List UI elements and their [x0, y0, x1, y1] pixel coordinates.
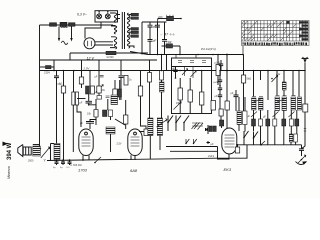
trimmer arrow over coils — [157, 119, 168, 128]
nested screen lines — [166, 147, 218, 159]
below-bus capacitor c — [68, 160, 72, 165]
tone pot — [298, 155, 306, 164]
rail B1 — [40, 59, 158, 61]
oscillator shelf — [172, 66, 212, 68]
wire x50 — [51, 144, 55, 161]
resistor pair R4 R5 — [89, 71, 91, 87]
svg-text:10k: 10k — [87, 113, 92, 116]
resistor R10 — [189, 78, 191, 90]
pot arrow R6 — [96, 85, 104, 93]
AC symbol — [61, 41, 67, 44]
wire right column — [298, 145, 302, 149]
IF can 2 coil a — [275, 97, 280, 111]
wire mains top — [40, 24, 114, 26]
svg-text:12 V: 12 V — [87, 56, 95, 60]
IF can 1 coil b — [259, 98, 264, 110]
wire v x74 — [73, 71, 75, 93]
capacitor chain x220 — [218, 71, 222, 86]
svg-text:0,1: 0,1 — [67, 167, 71, 169]
capacitor small — [106, 96, 110, 98]
svg-text:2x0,1: 2x0,1 — [207, 154, 215, 158]
svg-text:µF: µF — [210, 129, 213, 133]
osc coil pair — [148, 118, 153, 136]
IF coil former left — [72, 92, 75, 105]
resistor R6 — [98, 71, 100, 87]
trimmer pot right — [272, 75, 278, 82]
wire B0 drop — [69, 53, 71, 60]
resistor antenna line — [303, 104, 308, 112]
wire speaker top link — [33, 144, 40, 146]
capacitor near x99 — [100, 75, 104, 77]
table grid — [242, 21, 310, 46]
earth arrow — [296, 162, 307, 165]
svg-text:← 47 ∿∿: ← 47 ∿∿ — [160, 33, 175, 37]
svg-text:µF: µF — [263, 116, 266, 119]
svg-text:N. 308 402: N. 308 402 — [70, 164, 82, 167]
tube V3 envelope — [128, 129, 142, 156]
tube V2 pins — [83, 155, 89, 160]
wire rail link x99 — [98, 60, 100, 71]
tube V2 grids — [82, 137, 91, 146]
tap resistor 4V — [129, 14, 131, 16]
svg-text:µ100: µ100 — [215, 62, 221, 65]
capacitor C7 — [219, 60, 223, 71]
rail B2 — [148, 54, 243, 56]
table bottom row text — [243, 42, 308, 46]
resistor x140 — [140, 71, 142, 87]
transformer T1 primary — [114, 13, 116, 49]
svg-text:5µ: 5µ — [60, 167, 63, 169]
tube V3 pins — [131, 155, 135, 160]
capacitor C1 — [148, 22, 153, 38]
switch near tube V2 — [95, 157, 101, 163]
resistor R network top — [159, 18, 167, 20]
capacitor x124 — [124, 76, 128, 86]
wire coils down — [150, 136, 160, 159]
svg-text:µF: µF — [231, 92, 234, 95]
tube V2 envelope — [79, 129, 93, 156]
svg-text:µ+3: µ+3 — [214, 81, 219, 84]
coil dark — [106, 127, 115, 134]
tube V4 envelope — [222, 128, 237, 154]
svg-text:µF: µF — [95, 76, 98, 79]
resistor R14 — [243, 55, 245, 76]
bus extension — [218, 145, 248, 158]
resistor pair x161 — [161, 55, 163, 71]
resistor Y63 — [162, 45, 167, 47]
capacitor below EK3 bus — [237, 145, 239, 147]
output transformer coil — [33, 146, 41, 156]
svg-text:Pd 1/2(1½): Pd 1/2(1½) — [201, 47, 216, 51]
capacitor C4 — [162, 22, 167, 55]
oscillator unit frame — [172, 58, 212, 114]
wire rectifier cathode — [95, 44, 113, 46]
resistor row y110 — [94, 110, 98, 118]
wire rail link x54 — [53, 60, 55, 71]
wire plug pin 2 — [71, 27, 73, 39]
svg-text:2Ω: 2Ω — [102, 89, 105, 92]
svg-text:2000: 2000 — [28, 160, 34, 163]
margin arrow marker — [3, 142, 9, 147]
switch contact B — [254, 132, 259, 139]
wire lamp right — [118, 15, 121, 19]
svg-text:µF: µF — [153, 39, 157, 43]
resistor R11 — [201, 71, 203, 93]
tap resistor — [129, 28, 131, 30]
resistor R13 — [219, 109, 223, 116]
wire plug pin 1 — [58, 27, 60, 39]
switch arrows mid — [186, 139, 189, 144]
transformer T1 core — [122, 12, 124, 49]
svg-text:5µ: 5µ — [53, 167, 56, 169]
capacitor C2 — [148, 38, 153, 55]
resistor pair R7 R8 — [114, 80, 116, 89]
tap resistor — [129, 17, 131, 19]
wire unit feed — [166, 55, 168, 71]
wire links — [96, 99, 111, 125]
table right column entries — [287, 21, 309, 40]
wire secondary to rail — [130, 52, 148, 55]
volume pot — [41, 147, 50, 158]
wire lamp feed — [85, 22, 101, 39]
svg-text:230V: 230V — [44, 71, 50, 75]
svg-text:Y63: Y63 — [166, 40, 172, 44]
trimmer hang 2 — [182, 67, 188, 77]
IF can 1 coil a — [252, 98, 257, 110]
below-bus capacitor a — [55, 160, 59, 165]
wire filter top — [142, 21, 167, 23]
capacitor C11 — [207, 141, 211, 144]
bottom bus — [47, 158, 218, 160]
svg-text:Δr: Δr — [278, 73, 281, 76]
resistor on rail B0 — [106, 51, 116, 54]
fuse F2 — [69, 23, 76, 27]
pot arrow in unit — [174, 102, 182, 110]
svg-text:394 W: 394 W — [7, 142, 13, 160]
tube V4 grids — [225, 135, 235, 147]
transformer T1 secondary — [127, 13, 129, 48]
tube V3 grids — [131, 137, 140, 146]
svg-text:µF: µF — [247, 115, 250, 118]
svg-text:1703: 1703 — [78, 168, 88, 173]
table X marks — [242, 21, 296, 41]
wire primary stubs — [110, 13, 116, 48]
capacitor hang 1 — [173, 67, 177, 79]
svg-text:2,5V: 2,5V — [83, 67, 91, 71]
below-bus capacitor b — [61, 160, 65, 165]
trimmer cluster — [192, 123, 204, 130]
speaker — [18, 145, 23, 157]
IF can 3 coil a — [291, 97, 296, 110]
capacitor C12 — [299, 149, 304, 156]
IF can 3 coil b — [298, 97, 302, 110]
dial lamp box — [95, 11, 118, 22]
tube V4 pins — [217, 154, 229, 159]
wire drops to IF cans — [254, 71, 300, 101]
fuse F1 — [50, 23, 57, 27]
capacitor C3 — [155, 22, 160, 55]
resistor above tube V4 — [226, 71, 228, 102]
IF can 2 coil b — [282, 97, 287, 111]
junction dots rail C — [53, 70, 306, 72]
trimmer arrows row — [251, 112, 295, 118]
capacitor above tube V2 — [86, 101, 93, 103]
capacitor C10 — [205, 125, 208, 134]
capacitor above tube V2 lower — [86, 122, 94, 130]
small boxes row y96 — [97, 96, 102, 100]
dark box pair band unit — [209, 126, 212, 132]
rail C — [40, 70, 306, 72]
rail B0 — [70, 52, 148, 54]
band switch contacts — [168, 116, 173, 132]
resistor R9 — [179, 78, 181, 88]
svg-text:EK3: EK3 — [224, 167, 232, 172]
capacitor C9 — [234, 90, 239, 111]
EK3 bus — [236, 144, 298, 146]
junction x227 — [226, 54, 228, 56]
junction dots bus — [56, 160, 58, 162]
plug pin 1 arrow — [58, 38, 60, 42]
plug pin 2 arrow — [70, 38, 72, 42]
coil pair EK3 right — [237, 111, 242, 125]
switch contact A — [244, 131, 249, 138]
choke L1 — [60, 22, 67, 26]
coil dark right — [282, 82, 286, 90]
capacitor C6 — [119, 60, 124, 100]
wire former link — [77, 98, 86, 100]
resistor R2 — [63, 71, 65, 87]
resistor R3 — [81, 60, 83, 77]
resistor on unit right edge — [211, 101, 216, 111]
wire tap bottom — [129, 46, 134, 48]
trimmer hang 3 — [191, 67, 197, 79]
tap resistor — [129, 31, 131, 33]
lamp LA1 — [97, 14, 102, 19]
choke bumps — [61, 27, 68, 28]
box right of tube V3 — [144, 129, 152, 136]
wire filter v1 — [141, 22, 143, 55]
resistor pair right low — [289, 134, 293, 142]
wire table drop — [242, 46, 244, 55]
svg-text:2,5V: 2,5V — [117, 143, 122, 146]
svg-text:Gl.500: Gl.500 — [107, 56, 115, 59]
bus switch notch — [261, 141, 265, 145]
svg-text:5kΩ: 5kΩ — [247, 77, 252, 81]
resistor stub left — [40, 66, 46, 68]
svg-text:µF: µF — [211, 142, 214, 146]
svg-text:Minerva: Minerva — [7, 166, 11, 179]
wire pot top — [40, 148, 42, 149]
svg-text:6A8: 6A8 — [130, 168, 138, 173]
svg-text:µF: µF — [215, 95, 218, 98]
svg-text:µF: µF — [80, 102, 83, 105]
junction dots rail B — [157, 54, 244, 56]
wire left border — [39, 25, 41, 148]
rectifier tube V1 — [84, 38, 95, 49]
resistor above tube V3 — [125, 100, 127, 115]
svg-text:1k: 1k — [129, 79, 132, 82]
middle row resistors right — [253, 110, 255, 119]
antenna — [304, 63, 306, 105]
field coil — [54, 144, 60, 160]
svg-text:6,3 V~: 6,3 V~ — [77, 13, 87, 17]
resistor R12 — [217, 55, 219, 65]
resistor above tube V2 — [89, 103, 96, 110]
capacitor C5 — [54, 71, 59, 161]
lamp LA2 — [105, 14, 110, 19]
IF coil former right — [75, 92, 78, 105]
tap resistor — [129, 35, 131, 37]
svg-text:Y: Y — [44, 159, 47, 163]
wire rectifier anodes — [95, 41, 113, 43]
resistor left of unit — [149, 60, 151, 73]
svg-text:µF: µF — [80, 122, 83, 125]
